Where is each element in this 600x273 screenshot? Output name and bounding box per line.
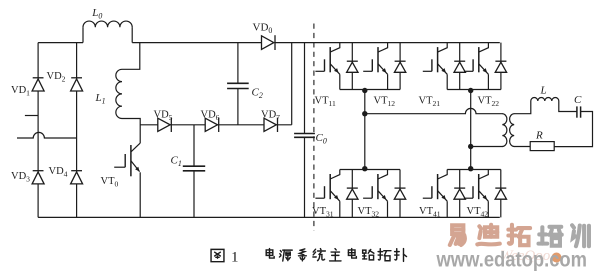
wire AC input terminal a [25,115,38,117]
capacitor C0 on DC bus rail [294,43,315,218]
caption 图1 电源系统主电路拓扑 [211,249,406,266]
svg-text:L1: L1 [95,92,106,106]
transistor VT21 (IGBT) [423,43,447,90]
label VT12 [374,96,396,109]
wire bottom row right pair top line [447,169,501,171]
resistor R (load) [530,142,554,151]
diode VD2 [71,78,83,91]
svg-text:R: R [535,130,543,142]
wire bridge left leg [37,43,39,218]
node B junction dots [468,88,473,172]
wire R to secondary bottom [514,146,530,148]
freewheel diode of VT11 [347,43,358,90]
freewheel diode of VT12 [394,43,405,90]
label VD5 [154,110,173,123]
diode VD7 [264,118,278,132]
node A junction dots [362,88,367,172]
inductor L0 [83,21,132,43]
svg-text:VT41: VT41 [419,206,441,219]
freewheel diode of VT41 [454,170,465,218]
wire VT0 emitter to bottom rail [139,172,141,217]
transistor VT12 (IGBT) [363,43,387,90]
svg-text:VD3: VD3 [11,171,30,184]
transistor VT22 (IGBT) [464,43,488,90]
svg-text:www.edatop.com: www.edatop.com [436,249,587,272]
svg-text:VD7: VD7 [261,110,280,123]
transistor VT0 (IGBT) [114,143,140,176]
svg-text:VT0: VT0 [101,176,119,189]
watermark www.edatop.com [436,249,587,272]
wire node A to transformer primary top (hops node B vertical) [365,108,503,113]
label L1 [95,92,106,106]
wire L1 bottom to VT0 collector node [122,119,140,144]
label VT41 [419,206,441,219]
freewheel diode of VT32 [394,170,405,218]
wire riser VD7 output to top rail [291,43,293,125]
wire node A vertical [364,90,366,170]
wire node B to transformer primary bottom [471,146,503,148]
wire AC input terminal b with crossover hop [17,132,77,138]
diode VD6 [205,118,219,132]
wire bridge right leg [76,43,78,218]
svg-text:VD2: VD2 [47,71,66,84]
label VD1 [11,85,30,98]
freewheel diode of VT21 [454,43,465,90]
svg-text:L: L [540,85,547,97]
label C2 [252,87,263,101]
label VD3 [11,171,30,184]
svg-text:VD4: VD4 [49,166,68,179]
svg-text:VT21: VT21 [419,96,441,109]
svg-text:VT32: VT32 [358,206,380,219]
svg-text:C2: C2 [252,87,263,101]
svg-text:VT42: VT42 [467,206,489,219]
wire secondary top lead [514,101,531,114]
wire bottom rail [38,216,500,218]
diode VD4 [71,171,83,184]
watermark 易迪拓培训 [450,225,589,246]
wire node B vertical [470,90,472,170]
label R (load) [535,130,543,142]
wire top rail middle segment (L0 to VD0) [132,42,261,44]
label VD6 [201,110,220,123]
label VT32 [358,206,380,219]
label VD2 [47,71,66,84]
watermark script WeeQoo [500,248,562,264]
label VT42 [467,206,489,219]
freewheel diode of VT22 [495,43,506,90]
label VD7 [261,110,280,123]
inductor L (load) [531,98,559,102]
label VT0 [101,176,119,189]
label VT22 [478,96,500,109]
label VT21 [419,96,441,109]
freewheel diode of VT42 [495,170,506,218]
capacitor C2 [227,43,249,125]
svg-text:1: 1 [231,250,239,266]
diode VD0 [262,35,276,50]
transistor VT32 (IGBT) [363,170,387,218]
wire boost diode line [140,124,292,126]
svg-text:VD5: VD5 [154,110,173,123]
wire C to load right side down [554,112,592,147]
svg-text:C0: C0 [316,132,327,146]
capacitor C1 [183,125,205,218]
transistor VT42 (IGBT) [464,170,488,218]
transistor VT11 (IGBT) [315,43,339,90]
diode VD1 [32,78,44,91]
inductor L1 [116,69,122,118]
wire top rail left segment (bridge to L0) [38,42,83,44]
label C (load) [574,94,582,106]
diode VD5 [158,118,172,132]
wire top rail right segment (VD0 to right bus end) [275,42,500,44]
transistor VT41 (IGBT) [423,170,447,218]
svg-text:VD1: VD1 [11,85,30,98]
svg-text:L0: L0 [91,7,102,21]
svg-text:VT22: VT22 [478,96,500,109]
label VT31 [312,206,334,219]
svg-text:C1: C1 [171,155,182,169]
label L (load) [540,85,547,97]
svg-text:VT31: VT31 [312,206,334,219]
svg-text:C: C [574,94,582,106]
wire L to C [559,101,577,112]
label L0 [91,7,102,21]
dashed section separator [313,24,315,231]
wire top row right pair bottom line [447,89,501,91]
freewheel diode of VT31 [347,170,358,218]
wire L1 riser from top rail [122,43,140,70]
label VT11 [315,96,337,109]
svg-text:VD6: VD6 [201,110,220,123]
label VD0 [253,22,273,36]
diode VD3 [32,171,44,184]
transistor VT31 (IGBT) [315,170,339,218]
transformer primary winding [502,114,507,147]
svg-text:VT11: VT11 [315,96,337,109]
svg-text:VD0: VD0 [253,22,273,36]
label VD4 [49,166,68,179]
transformer secondary winding [510,114,515,147]
wire bottom row left pair top line [340,169,400,171]
svg-text:VT12: VT12 [374,96,396,109]
capacitor C (load) [577,106,581,117]
label C1 [171,155,182,169]
label C0 [316,132,327,146]
wire top row left pair bottom line [340,89,400,91]
